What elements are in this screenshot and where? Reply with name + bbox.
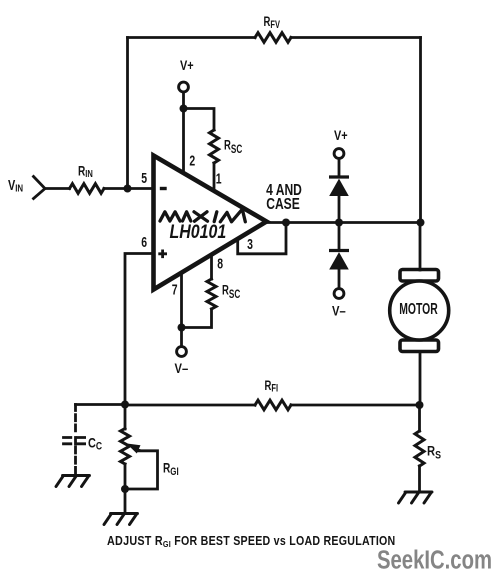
svg-text:V–: V– [332, 303, 346, 318]
svg-text:ADJUST RGI FOR BEST SPEED vs L: ADJUST RGI FOR BEST SPEED vs LOAD REGULA… [107, 534, 395, 549]
wire: top rail left segment to RFV [128, 36, 256, 39]
plus sign at pin 6 [158, 250, 167, 259]
wire: pin 3 loop to output node [238, 223, 286, 254]
MAXIM logo [160, 209, 245, 222]
wire: RGI wiper loop [125, 451, 158, 489]
wire: pin 8 down to RSC2 [210, 253, 213, 279]
svg-text:V–: V– [175, 361, 189, 376]
wire: motor bottom to sense node [419, 352, 422, 406]
svg-text:1: 1 [216, 171, 222, 187]
terminal circle V+ (op-amp supply, above pin 2) [179, 82, 189, 92]
wire: sense node down to RS [418, 405, 421, 431]
svg-text:LH0101: LH0101 [170, 221, 227, 243]
minus sign at pin 5 [160, 187, 167, 190]
wire: gain node left lead to CC branch [76, 403, 126, 406]
resistor RIN [70, 184, 105, 194]
arrowhead of RGI wiper [127, 444, 141, 454]
terminal circle V- (op-amp supply, below pin 7) [177, 347, 187, 357]
wire: right vertical from top rail down to output node [419, 38, 422, 223]
wire: V+ terminal to upper clamp diode [338, 159, 341, 178]
terminal chevron VIN input [34, 177, 46, 199]
svg-text:CASE: CASE [266, 195, 300, 213]
svg-text:V+: V+ [180, 58, 194, 74]
wire: pin 6 lead left then down to gain node [125, 254, 153, 405]
wire: pin 7 vertical down to V- node [180, 272, 183, 347]
svg-text:8: 8 [217, 256, 223, 272]
svg-text:3: 3 [247, 236, 253, 252]
wire: V+ terminal lead down to pin2/pin1 split [182, 92, 185, 109]
wire: gain node down to RGI top [124, 405, 127, 430]
junction node: V+ split [180, 105, 188, 113]
junction node: right rail [417, 219, 425, 227]
capacitor CC plates (dashed) [64, 438, 85, 445]
resistor RSC2 (pins 8-7) [207, 279, 216, 309]
wire: input lead from VIN chevron to RIN [45, 187, 70, 190]
potentiometer RGI body [121, 429, 130, 465]
wire: output node down to motor [419, 223, 422, 271]
wire: dashed CC bottom lead to ground [74, 447, 77, 473]
wire: upper diode to output rail [338, 196, 341, 223]
wire: output rail from op-amp tip to right vertical [266, 221, 421, 224]
terminal circle V- (diode rail) [334, 289, 344, 299]
wire: left feedback vertical from input node up to top rail [126, 38, 129, 189]
wire: dashed CC top lead [74, 405, 77, 435]
junction node: diode rail [335, 219, 343, 227]
motor M1 [390, 270, 449, 352]
wire: RIN to pin 5 of op-amp [104, 187, 153, 190]
diode D2 (lower clamp, anode to V-) [329, 251, 349, 270]
resistor RSC1 (pins 2-1) [210, 130, 219, 163]
junction node: output at pin3 loop [282, 219, 290, 227]
wire: RSC1 bottom to pin 1 [213, 163, 216, 193]
svg-text:SeekIC.com: SeekIC.com [377, 547, 492, 575]
svg-text:MOTOR: MOTOR [399, 300, 438, 318]
diode D1 (upper clamp, cathode to V+) [329, 177, 349, 196]
ground symbol under RS [399, 492, 433, 503]
terminal circle V+ (diode rail) [334, 149, 344, 159]
wire: split to RSC1 top [184, 109, 215, 131]
resistor RS [415, 431, 424, 466]
junction node: pin7/V- [178, 324, 186, 332]
svg-text:V+: V+ [334, 128, 348, 144]
svg-text:2: 2 [189, 153, 195, 169]
wire: pin 2 vertical into op-amp top edge [182, 109, 185, 177]
op-amp U1 triangle body [154, 156, 267, 290]
resistor RFI [255, 400, 291, 410]
wire: RFI right lead to sense node [291, 404, 420, 407]
wire: output rail to lower diode [338, 223, 341, 251]
svg-text:5: 5 [141, 170, 147, 186]
ground symbol under RGI [104, 514, 138, 525]
wiper shaft [134, 449, 141, 451]
ground symbol under CC [56, 476, 90, 487]
wire: RGI bottom lead to ground node [124, 464, 127, 513]
wire: RFI left lead [125, 404, 255, 407]
junction node: sense node [416, 401, 424, 409]
wire: RSC2 bottom over to pin-7 node [182, 309, 212, 328]
svg-text:6: 6 [141, 234, 147, 250]
svg-text:7: 7 [172, 282, 178, 298]
wire: lower diode to V- terminal [338, 270, 341, 289]
junction node: gain node [121, 401, 129, 409]
junction node: input/feedback [124, 185, 132, 193]
junction node: RGI bottom [121, 485, 129, 493]
wire: RS to ground [418, 466, 421, 490]
wire: top rail right segment from RFV to right corner [291, 36, 421, 39]
resistor RFV [255, 33, 291, 43]
